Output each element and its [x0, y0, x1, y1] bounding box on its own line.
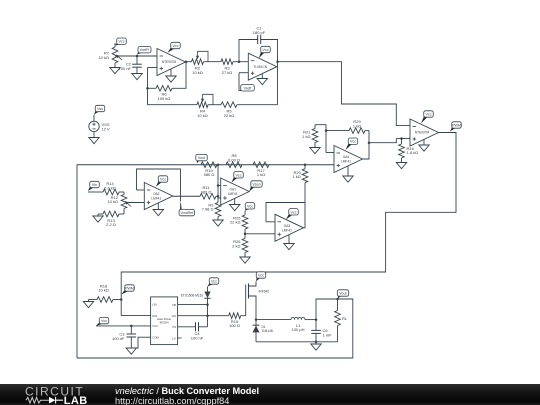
svg-text:OA2: OA2 [153, 192, 160, 196]
svg-text:IR2304: IR2304 [160, 320, 169, 324]
svg-text:VB: VB [172, 303, 176, 307]
svg-text:980 Ω: 980 Ω [204, 172, 215, 177]
svg-text:1.8 kΩ: 1.8 kΩ [407, 150, 419, 155]
svg-text:Vcc: Vcc [350, 140, 356, 144]
svg-text:Vcc: Vcc [291, 210, 297, 214]
svg-text:100 nF: 100 nF [112, 336, 125, 341]
svg-text:7.98 Ω: 7.98 Ω [202, 207, 214, 212]
svg-text:Vcc: Vcc [101, 319, 107, 323]
svg-text:VrefFi: VrefFi [140, 48, 150, 52]
svg-text:LMF41: LMF41 [151, 197, 161, 201]
svg-text:180 pF: 180 pF [253, 30, 266, 35]
svg-text:100 nF: 100 nF [119, 66, 132, 71]
svg-text:100 kΩ: 100 kΩ [158, 96, 171, 101]
svg-text:1 kΩ: 1 kΩ [257, 172, 265, 177]
svg-text:Vcc: Vcc [119, 40, 125, 44]
svg-text:OA4: OA4 [343, 155, 350, 159]
svg-text:PWM: PWM [125, 286, 134, 290]
svg-text:12 V: 12 V [102, 126, 111, 131]
svg-text:Vout: Vout [339, 291, 346, 295]
svg-text:Vcc: Vcc [258, 273, 264, 277]
svg-text:2 kΩ: 2 kΩ [232, 243, 240, 248]
svg-text:ETU1506-M161: ETU1506-M161 [181, 293, 204, 297]
svg-text:NTE937M: NTE937M [415, 131, 430, 135]
svg-text:10 kΩ: 10 kΩ [197, 113, 208, 118]
svg-text:1N4148: 1N4148 [262, 329, 273, 333]
svg-text:COM: COM [152, 336, 159, 340]
svg-text:RL: RL [342, 316, 348, 321]
svg-text:LIN: LIN [152, 303, 156, 307]
svg-text:Vcc: Vcc [211, 279, 217, 283]
svg-text:Vout: Vout [198, 156, 205, 160]
svg-text:100 µH: 100 µH [292, 327, 305, 332]
svg-text:8.00 Ω: 8.00 Ω [228, 157, 240, 162]
svg-text:982 Ω: 982 Ω [201, 189, 212, 194]
svg-text:NTE937M: NTE937M [162, 60, 177, 64]
svg-text:LMF41: LMF41 [228, 192, 238, 196]
svg-text:27 kΩ: 27 kΩ [222, 70, 233, 75]
svg-text:LMF41: LMF41 [341, 160, 351, 164]
svg-text:22 kΩ: 22 kΩ [230, 220, 241, 225]
svg-text:Vcc: Vcc [236, 173, 242, 177]
svg-text:100 nF: 100 nF [191, 335, 204, 340]
svg-text:VCC: VCC [152, 324, 158, 328]
svg-text:Vin: Vin [92, 183, 97, 187]
svg-text:1 kΩ: 1 kΩ [353, 123, 361, 128]
svg-text:10 kΩ: 10 kΩ [107, 199, 118, 204]
svg-text:Vcc: Vcc [426, 112, 432, 116]
svg-text:22 kΩ: 22 kΩ [224, 113, 235, 118]
svg-text:IRF540: IRF540 [259, 289, 270, 293]
svg-text:1 kΩ: 1 kΩ [292, 174, 300, 179]
svg-text:LAB: LAB [64, 395, 88, 405]
svg-text:PWM: PWM [452, 123, 461, 127]
svg-text:10 kΩ: 10 kΩ [192, 70, 203, 75]
svg-text:OA1: OA1 [229, 188, 236, 192]
svg-text:OA3: OA3 [284, 224, 291, 228]
svg-text:2.2 Ω: 2.2 Ω [106, 222, 116, 227]
svg-text:Vss: Vss [97, 107, 103, 111]
svg-text:Vcc: Vcc [263, 48, 269, 52]
svg-text:TL081CN: TL081CN [253, 65, 267, 69]
svg-text:10 kΩ: 10 kΩ [98, 55, 109, 60]
svg-text:10 kΩ: 10 kΩ [98, 288, 109, 293]
svg-text:6.6 kΩ: 6.6 kΩ [104, 185, 116, 190]
svg-text:100 Ω: 100 Ω [229, 323, 240, 328]
svg-text:Vsen: Vsen [252, 182, 260, 186]
svg-text:1 mF: 1 mF [323, 332, 333, 337]
svg-text:Vcc: Vcc [173, 44, 179, 48]
svg-text:Vreff: Vreff [244, 86, 251, 90]
svg-text:LMF41: LMF41 [282, 228, 292, 232]
svg-text:1 kΩ: 1 kΩ [302, 134, 310, 139]
svg-text:VoutRef: VoutRef [180, 211, 193, 215]
svg-text:Vcc: Vcc [160, 177, 166, 181]
svg-text:VS: VS [172, 325, 176, 329]
svg-text:Vcc: Vcc [247, 204, 253, 208]
